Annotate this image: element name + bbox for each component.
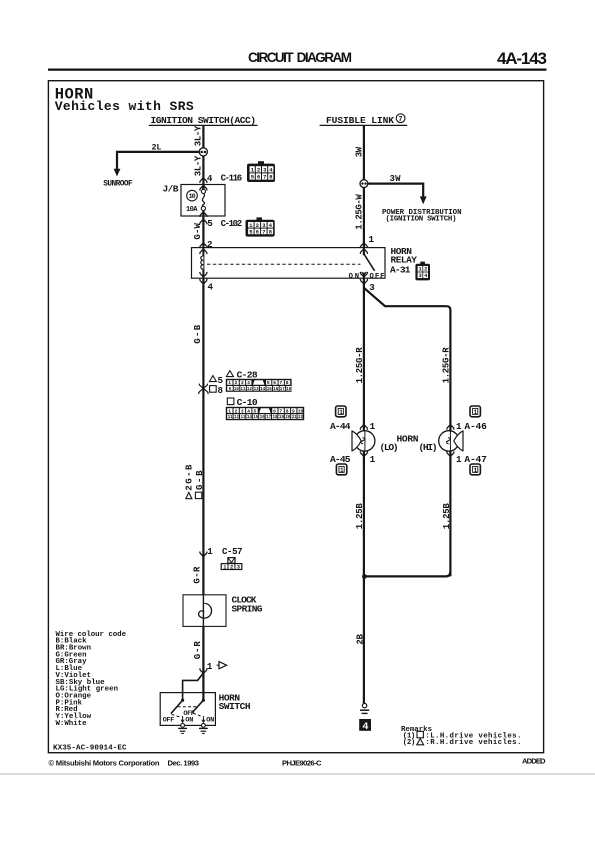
svg-text:1: 1 bbox=[474, 409, 478, 416]
svg-text:15: 15 bbox=[253, 416, 259, 420]
connector C-28/C-10 inline marker bbox=[199, 384, 208, 394]
svg-text:1: 1 bbox=[339, 409, 343, 416]
relay pin 3 marker bbox=[360, 279, 367, 284]
connector label triangle C-28 bbox=[226, 369, 257, 380]
svg-text:SWITCH: SWITCH bbox=[219, 701, 251, 712]
svg-text:2: 2 bbox=[230, 565, 233, 571]
wire: relay pin3 down to LO horn and ground (1.25G-R / 1.25B / 2B) bbox=[363, 278, 365, 703]
svg-text:3L-Y: 3L-Y bbox=[193, 155, 203, 176]
svg-text:10A: 10A bbox=[186, 206, 198, 214]
svg-text:2L: 2L bbox=[152, 143, 162, 153]
svg-text:CIRCUIT DIAGRAM: CIRCUIT DIAGRAM bbox=[248, 50, 352, 65]
svg-text:FUSIBLE LINK: FUSIBLE LINK bbox=[326, 115, 394, 126]
fuse symbol (in J/B) bbox=[201, 186, 205, 210]
svg-text:12: 12 bbox=[247, 388, 253, 392]
svg-text:ON: ON bbox=[185, 717, 193, 725]
svg-text:2G-B: 2G-B bbox=[184, 464, 194, 491]
connector C-102 pin diagram bbox=[246, 217, 275, 236]
svg-text:(2): (2) bbox=[403, 739, 416, 747]
svg-text:J/B: J/B bbox=[163, 184, 179, 195]
svg-text:3: 3 bbox=[262, 223, 265, 229]
svg-text:22: 22 bbox=[298, 416, 304, 420]
wire labels 2G-B / G-B (alternative) bbox=[184, 464, 205, 499]
svg-text:5: 5 bbox=[249, 229, 252, 235]
wire: branch to sunroof (2L) bbox=[114, 152, 200, 177]
relay switch contact bbox=[362, 248, 375, 279]
svg-text:1.25B: 1.25B bbox=[442, 503, 452, 530]
svg-text:1: 1 bbox=[340, 467, 344, 474]
power source label IGNITION SWITCH(ACC) bbox=[149, 115, 258, 126]
svg-text:1: 1 bbox=[228, 380, 231, 386]
horn switch pin marker bbox=[200, 668, 207, 673]
relay label HORN RELAY bbox=[391, 246, 418, 266]
svg-text:1: 1 bbox=[474, 467, 478, 474]
svg-text:4: 4 bbox=[208, 282, 214, 293]
fuse number circled 10 bbox=[187, 190, 198, 201]
svg-text:IGNITION SWITCH(ACC): IGNITION SWITCH(ACC) bbox=[151, 115, 257, 126]
svg-text:(HI): (HI) bbox=[419, 442, 438, 453]
wire: fuse output to relay (G-W) bbox=[202, 211, 204, 248]
relay coil (on left leg) bbox=[201, 248, 204, 279]
clock spring spiral bbox=[199, 603, 212, 618]
svg-text:1: 1 bbox=[419, 267, 422, 273]
svg-text:1: 1 bbox=[223, 565, 226, 571]
svg-text:18: 18 bbox=[273, 416, 279, 420]
wire: fusible link feed vertical (3W / 1.25G-W) bbox=[363, 126, 365, 248]
svg-text:8: 8 bbox=[218, 385, 224, 396]
horn LO symbol bbox=[352, 430, 375, 451]
svg-text:OFF: OFF bbox=[370, 273, 385, 281]
clock spring wire through bbox=[202, 595, 204, 627]
svg-text:7: 7 bbox=[398, 116, 402, 124]
clock spring label bbox=[232, 595, 263, 615]
connector C-57 pin marker bbox=[200, 552, 207, 557]
svg-text:17: 17 bbox=[266, 416, 272, 420]
svg-text:C-28: C-28 bbox=[237, 369, 258, 380]
svg-text:G-B: G-B bbox=[195, 470, 205, 490]
svg-text:8: 8 bbox=[269, 229, 272, 235]
svg-text:14: 14 bbox=[247, 416, 253, 420]
svg-text:2: 2 bbox=[256, 223, 259, 229]
svg-text:7: 7 bbox=[279, 408, 282, 414]
relay pin 2 marker bbox=[200, 243, 207, 248]
svg-text:C-57: C-57 bbox=[222, 547, 243, 557]
svg-text:6: 6 bbox=[256, 229, 259, 235]
svg-text:G-R: G-R bbox=[193, 641, 203, 660]
svg-text:3: 3 bbox=[241, 380, 244, 386]
svg-text:3: 3 bbox=[419, 273, 422, 279]
svg-text:3W: 3W bbox=[390, 174, 402, 184]
svg-text:7: 7 bbox=[263, 174, 266, 181]
svg-text:5: 5 bbox=[207, 218, 213, 229]
svg-text:18: 18 bbox=[286, 388, 292, 392]
svg-text:SPRING: SPRING bbox=[232, 603, 263, 614]
wire: branch to left horn switch contact bbox=[183, 673, 204, 700]
off-page reference triangle bbox=[217, 662, 227, 669]
svg-text:1.25G-W: 1.25G-W bbox=[355, 194, 365, 230]
relay pin 4 marker bbox=[200, 279, 207, 284]
remarks note bbox=[401, 726, 521, 747]
svg-text:4: 4 bbox=[362, 721, 368, 733]
connector A-47 icon bbox=[470, 464, 480, 475]
svg-text:A-46: A-46 bbox=[464, 421, 487, 432]
connector mating chevron above relay bottom edge (pin 3) bbox=[360, 272, 367, 277]
relay pin 1 marker bbox=[360, 243, 367, 248]
svg-text:15: 15 bbox=[267, 388, 273, 392]
svg-text:11: 11 bbox=[241, 388, 247, 392]
svg-text:14: 14 bbox=[260, 388, 266, 392]
svg-text:4A-143: 4A-143 bbox=[497, 49, 547, 68]
svg-text:© Mitsubishi Motors Corporatio: © Mitsubishi Motors Corporation bbox=[49, 758, 160, 767]
connector C-10 pin diagram bbox=[226, 407, 304, 420]
svg-text:Dec. 1993: Dec. 1993 bbox=[168, 758, 200, 767]
connector A-46 icon bbox=[470, 406, 480, 417]
svg-text:2: 2 bbox=[235, 408, 238, 414]
connector A-31 pin diagram bbox=[415, 262, 430, 281]
ground reference numeral 4 bbox=[359, 719, 371, 733]
svg-text:9: 9 bbox=[292, 408, 295, 414]
horn switch label bbox=[219, 692, 251, 712]
svg-text:1: 1 bbox=[369, 234, 375, 245]
wire: branch to HI horn (diagonal + horizontal) bbox=[364, 288, 451, 577]
svg-text:G-W: G-W bbox=[193, 223, 203, 240]
svg-text:1.25G-R: 1.25G-R bbox=[355, 347, 365, 384]
horn switch ground left bbox=[178, 724, 187, 734]
svg-text:1: 1 bbox=[207, 661, 213, 672]
wire: branch to power distribution (3W) bbox=[368, 184, 427, 205]
svg-text:1: 1 bbox=[370, 454, 376, 465]
pin label triangle 5 bbox=[209, 375, 223, 386]
horn relay box bbox=[192, 248, 386, 279]
svg-text:ADDED: ADDED bbox=[522, 757, 546, 766]
connector C-57 pin diagram bbox=[221, 558, 242, 571]
svg-text:1.25G-R: 1.25G-R bbox=[441, 347, 451, 384]
svg-text:Vehicles with SRS: Vehicles with SRS bbox=[55, 99, 194, 114]
svg-text:6: 6 bbox=[273, 380, 276, 386]
wire colour code legend bbox=[56, 631, 127, 728]
horn HI symbol bbox=[439, 430, 463, 451]
svg-text:20: 20 bbox=[285, 416, 291, 420]
svg-text:5: 5 bbox=[267, 380, 270, 386]
svg-text::R.H.drive vehicles.: :R.H.drive vehicles. bbox=[425, 739, 521, 747]
horn LO pin marker (bottom) bbox=[360, 451, 367, 456]
splice joint on ignition feed bbox=[199, 148, 207, 156]
svg-text:10: 10 bbox=[234, 388, 240, 392]
horn switch box bbox=[160, 693, 215, 726]
svg-text:12: 12 bbox=[234, 416, 240, 420]
svg-text:1: 1 bbox=[456, 421, 462, 432]
svg-text:21: 21 bbox=[292, 416, 298, 420]
svg-text:3L-Y: 3L-Y bbox=[193, 125, 203, 146]
svg-text:16: 16 bbox=[273, 388, 279, 392]
svg-text:C-10: C-10 bbox=[237, 397, 258, 408]
svg-text:A-31: A-31 bbox=[390, 265, 411, 276]
power distribution label bbox=[382, 209, 462, 224]
connector mating chevron above relay bottom edge (pin 4) bbox=[200, 272, 207, 277]
svg-text:G-B: G-B bbox=[193, 324, 203, 344]
svg-text:ON: ON bbox=[206, 717, 214, 725]
horn switch left contact bbox=[171, 699, 184, 714]
connector C-116 pin diagram bbox=[247, 161, 275, 182]
clock spring box bbox=[183, 595, 226, 627]
svg-text:10: 10 bbox=[298, 408, 304, 414]
svg-text:4: 4 bbox=[247, 380, 250, 386]
svg-text:G-R: G-R bbox=[193, 566, 203, 584]
svg-text:1: 1 bbox=[207, 546, 213, 557]
connector C-116 pin marker bbox=[200, 178, 207, 183]
svg-text:10: 10 bbox=[189, 193, 196, 200]
connector A-45 icon bbox=[336, 464, 346, 475]
svg-text:1: 1 bbox=[456, 454, 462, 465]
svg-text:5: 5 bbox=[254, 408, 257, 414]
horn switch mechanical dashed links bbox=[172, 707, 203, 718]
svg-text:13: 13 bbox=[254, 388, 260, 392]
svg-text:OFF: OFF bbox=[163, 717, 175, 725]
connector mating chevron below relay top edge (pin 2) bbox=[200, 249, 207, 254]
svg-text:19: 19 bbox=[279, 416, 285, 420]
svg-text:3W: 3W bbox=[355, 146, 365, 157]
svg-text:13: 13 bbox=[241, 416, 247, 420]
svg-text:(LO): (LO) bbox=[380, 442, 399, 453]
horn LO pin marker (top) bbox=[360, 425, 367, 430]
splice joint on fusible link feed bbox=[360, 180, 368, 188]
junction block J/B bbox=[181, 185, 225, 217]
wire: relay pin4 to horn switch (G-B / G-R) bbox=[202, 278, 204, 700]
svg-text:SUNROOF: SUNROOF bbox=[103, 180, 133, 188]
border frame bbox=[48, 81, 543, 753]
connector label square C-10 bbox=[227, 397, 258, 408]
header rule bbox=[48, 68, 547, 70]
connector mating chevron below relay top edge (pin 1) bbox=[360, 249, 367, 254]
svg-text:2: 2 bbox=[424, 267, 427, 273]
horn switch right contact bbox=[192, 699, 205, 713]
svg-text:A-44: A-44 bbox=[330, 421, 351, 432]
svg-text:4: 4 bbox=[207, 173, 213, 184]
horn switch label ON (left, with arrow) bbox=[181, 716, 193, 725]
pin label square 8 bbox=[210, 385, 224, 396]
svg-text:HORN: HORN bbox=[397, 434, 419, 445]
horn switch label ON (right, with arrow) bbox=[202, 716, 214, 725]
junction dot bbox=[362, 574, 367, 579]
power source label FUSIBLE LINK 7 bbox=[320, 114, 408, 126]
connector C-102 pin marker bbox=[200, 219, 207, 224]
svg-text:1: 1 bbox=[370, 421, 376, 432]
svg-text:(IGNITION SWITCH): (IGNITION SWITCH) bbox=[386, 216, 457, 224]
svg-text:W:White: W:White bbox=[56, 720, 88, 728]
svg-text:3: 3 bbox=[241, 408, 244, 414]
horn switch ground right bbox=[199, 724, 208, 734]
svg-text:PHJE9026-C: PHJE9026-C bbox=[282, 758, 322, 767]
ground symbol (body earth) bbox=[360, 703, 369, 713]
svg-text:16: 16 bbox=[260, 416, 266, 420]
svg-text:17: 17 bbox=[280, 388, 286, 392]
svg-text:KX35-AC-90914-EC: KX35-AC-90914-EC bbox=[53, 744, 127, 752]
svg-text:1: 1 bbox=[249, 223, 252, 229]
svg-text:1.25B: 1.25B bbox=[355, 503, 365, 530]
svg-text:8: 8 bbox=[286, 408, 289, 414]
svg-text:ON: ON bbox=[349, 273, 360, 281]
svg-text:8: 8 bbox=[286, 380, 289, 386]
connector mating chevron above J/B bottom edge bbox=[200, 212, 207, 217]
svg-text:3: 3 bbox=[237, 565, 240, 571]
relay internal dashed link (coil to contact) bbox=[207, 263, 361, 265]
svg-text:1: 1 bbox=[228, 408, 231, 414]
svg-text:2B: 2B bbox=[355, 634, 365, 645]
svg-text:C-116: C-116 bbox=[221, 173, 243, 183]
svg-text:7: 7 bbox=[262, 229, 265, 235]
svg-text:7: 7 bbox=[280, 380, 283, 386]
wire: ignition feed vertical (3L-Y) bbox=[202, 126, 204, 189]
svg-text:2: 2 bbox=[235, 380, 238, 386]
connector A-44 icon bbox=[336, 406, 346, 417]
wire: HI horn return joining LO return bbox=[365, 571, 451, 576]
scan artifact line bbox=[0, 773, 595, 775]
svg-text:C-102: C-102 bbox=[221, 219, 243, 229]
svg-text:11: 11 bbox=[228, 416, 234, 420]
horn HI pin marker (bottom) bbox=[447, 451, 454, 456]
svg-text:6: 6 bbox=[273, 408, 276, 414]
connector mating chevron below J/B top edge bbox=[200, 185, 207, 190]
svg-text:4: 4 bbox=[247, 408, 250, 414]
svg-text:3: 3 bbox=[369, 282, 375, 293]
connector C-28 pin diagram bbox=[226, 379, 292, 392]
horn HI pin marker (top) bbox=[447, 425, 454, 430]
